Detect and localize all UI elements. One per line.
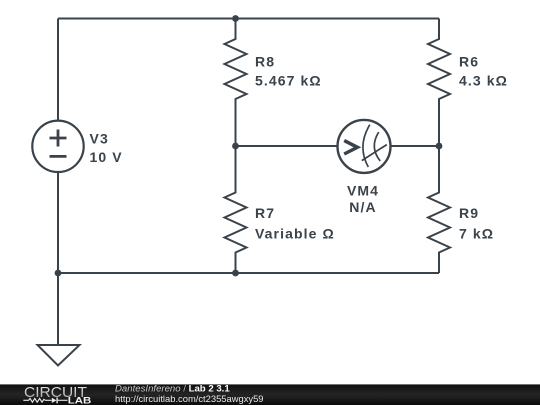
label R8 value [255, 54, 322, 89]
svg-text:Variable Ω: Variable Ω [255, 225, 335, 241]
svg-text:R7: R7 [255, 205, 275, 221]
voltage source V3 [32, 121, 83, 172]
node bottom left junction [55, 270, 62, 277]
wire top rail [58, 18, 439, 20]
footer bar [0, 384, 540, 405]
resistor R6 [428, 19, 450, 147]
ground [38, 345, 80, 366]
wire bottom rail [58, 272, 439, 274]
wire middle right (voltmeter to node C) [391, 145, 439, 147]
label R9 value [459, 205, 494, 241]
wire left vertical upper [57, 19, 59, 121]
svg-text:5.467 kΩ: 5.467 kΩ [255, 73, 322, 89]
label V3 value [90, 130, 123, 165]
resistor R9 [428, 146, 450, 273]
node bottom junction [232, 270, 239, 277]
CircuitLab logo LAB text [68, 395, 92, 405]
node middle right junction [436, 143, 443, 150]
svg-text:10 V: 10 V [90, 149, 123, 165]
svg-text:http://circuitlab.com/ct2355aw: http://circuitlab.com/ct2355awgxy59 [115, 393, 264, 404]
svg-text:N/A: N/A [349, 199, 376, 215]
svg-text:LAB: LAB [68, 395, 92, 405]
label R6 value [459, 54, 508, 89]
wire ground stem [57, 273, 59, 345]
label R7 value [255, 205, 335, 241]
voltmeter VM4 [338, 120, 391, 173]
svg-text:7 kΩ: 7 kΩ [459, 225, 494, 241]
CircuitLab logo diode glyph [52, 398, 68, 404]
footer title text [115, 383, 264, 404]
node middle left junction [232, 143, 239, 150]
svg-text:V3: V3 [90, 130, 109, 146]
svg-text:R9: R9 [459, 205, 479, 221]
node top junction [232, 15, 239, 22]
svg-text:VM4: VM4 [347, 182, 379, 198]
resistor R8 [225, 19, 247, 147]
svg-text:R6: R6 [459, 54, 479, 70]
label VM4 value [347, 182, 379, 215]
wire left vertical lower [57, 172, 59, 273]
CircuitLab logo resistor glyph [23, 398, 51, 402]
resistor R7 [225, 146, 247, 273]
CircuitLab logo wordmark [24, 385, 87, 401]
svg-text:R8: R8 [255, 54, 275, 70]
wire middle left (node B to voltmeter) [236, 145, 338, 147]
svg-text:4.3 kΩ: 4.3 kΩ [459, 73, 508, 89]
